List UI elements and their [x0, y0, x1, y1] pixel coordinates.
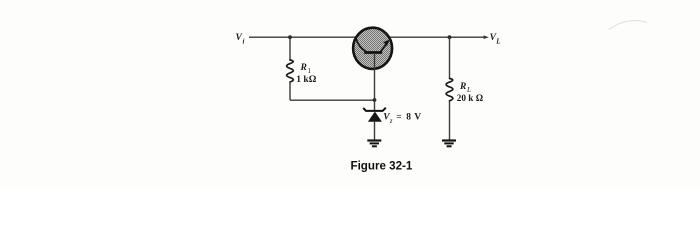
label R1 [300, 63, 312, 75]
zener diode D1 cathode bar [363, 108, 386, 111]
svg-text:R: R [459, 82, 466, 92]
label Vz = 8 V [383, 113, 421, 125]
wire transistor emitter to VL [390, 36, 487, 38]
svg-text:V: V [236, 33, 243, 43]
wire R1 bottom [289, 82, 291, 100]
node VL label [490, 33, 501, 46]
wire zener to ground [374, 122, 376, 140]
label RL [459, 82, 471, 94]
ground G1 (zener) [367, 141, 381, 147]
resistor R1 [287, 60, 294, 82]
wire RL top [449, 37, 451, 78]
wire R1 to base node [290, 99, 375, 101]
transistor Q1 emitter stroke [380, 41, 388, 52]
resistor RL [446, 79, 453, 101]
transistor Q1 base bar [364, 51, 382, 54]
wire base lead down [374, 53, 376, 100]
node C junction dot base/zener [373, 98, 377, 102]
ground G2 (RL) [442, 141, 456, 147]
wire Vi to transistor collector [249, 36, 356, 38]
svg-text:1: 1 [308, 67, 312, 75]
zener diode D1 anode triangle [368, 112, 382, 122]
arrowhead at VL [484, 35, 489, 39]
svg-text:L: L [495, 38, 500, 46]
svg-text:8: 8 [406, 113, 411, 123]
node B junction dot at RL top [448, 35, 452, 39]
scan smudge arc top right [609, 21, 647, 30]
wire node C to zener [374, 100, 376, 111]
svg-text:i: i [243, 38, 245, 46]
transistor Q1 emitter arrowhead [383, 40, 389, 46]
wire R1 top [289, 37, 291, 60]
svg-text:z: z [389, 117, 393, 125]
transistor Q1 body [353, 28, 392, 69]
svg-text:=: = [396, 113, 401, 123]
transistor Q1 collector stroke [356, 39, 366, 52]
svg-text:R: R [300, 63, 307, 73]
node A junction dot at R1 top [288, 35, 292, 39]
svg-text:1 kΩ: 1 kΩ [296, 75, 316, 85]
wire RL bottom [449, 101, 451, 140]
svg-text:V: V [414, 113, 421, 123]
svg-text:20 k Ω: 20 k Ω [457, 93, 483, 103]
svg-text:Figure 32-1: Figure 32-1 [351, 159, 413, 172]
node Vi label [236, 33, 245, 46]
